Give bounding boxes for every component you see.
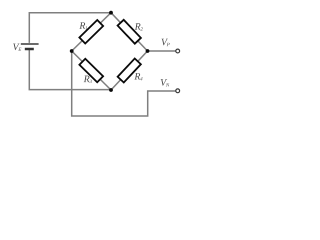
- label V_P: [162, 39, 170, 46]
- label V_E: [13, 44, 21, 51]
- node: bridge top junction: [109, 11, 113, 15]
- wire: bridge edge top-right lead: [111, 13, 148, 51]
- wire: battery bottom to bridge bottom node: [29, 49, 111, 89]
- node: bridge bottom junction: [109, 88, 113, 92]
- wire: battery top to bridge top node: [29, 13, 111, 43]
- resistor R2 (top-right arm): [118, 20, 141, 44]
- label V_N: [161, 79, 170, 86]
- resistor R4 (bottom-right arm): [118, 59, 141, 83]
- resistor R1 (top-left arm): [79, 20, 103, 43]
- label R1: [79, 22, 87, 29]
- terminal V_P (open circle): [176, 49, 180, 53]
- node: bridge right junction: [146, 49, 150, 53]
- wire: bridge edge bottom-left lead: [72, 51, 111, 90]
- label R3: [84, 76, 92, 83]
- terminal V_N (open circle): [176, 89, 180, 93]
- wire: bridge edge bottom-right lead: [111, 51, 148, 90]
- label R4: [134, 73, 142, 80]
- wire: left node down, along bottom, up to V_N terminal: [72, 51, 176, 116]
- wire: right node to V_P terminal: [148, 50, 176, 52]
- battery V_E (source plates): [21, 44, 39, 49]
- resistor R3 (bottom-left arm): [79, 59, 103, 83]
- node: bridge left junction: [70, 49, 74, 53]
- wire: bridge edge top-left lead: [72, 13, 111, 51]
- label R2: [135, 23, 143, 30]
